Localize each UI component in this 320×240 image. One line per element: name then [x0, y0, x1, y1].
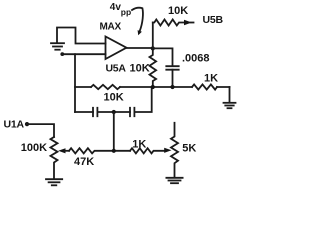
resistor 1K right [192, 84, 217, 89]
ground [51, 43, 64, 50]
wire: 1K to ground [229, 87, 231, 102]
node: bottom row junction [112, 149, 116, 153]
wire: output node up to top resistor [152, 23, 154, 49]
op-amp U5A [106, 37, 127, 60]
svg-text:4v: 4v [110, 2, 122, 13]
wire: output node to cap .0068 [153, 48, 173, 66]
node: resistor bottom junction [151, 85, 155, 89]
svg-text:10K: 10K [168, 5, 188, 17]
svg-text:.0068: .0068 [182, 53, 210, 65]
wiper arrow 5K [164, 148, 171, 153]
ground 5K [166, 178, 182, 183]
svg-text:1K: 1K [204, 73, 218, 85]
resistor 47K [69, 148, 130, 153]
wire: capacitor row [75, 87, 152, 112]
capacitor C1 [93, 108, 97, 116]
svg-text:U5B: U5B [203, 14, 224, 26]
resistor 1K bottom [130, 148, 165, 153]
svg-text:10K: 10K [130, 63, 150, 75]
ground right [224, 103, 236, 108]
svg-text:U5A: U5A [106, 63, 127, 75]
wire: U1A to 100K pot [27, 124, 54, 137]
node: cap bottom junction [170, 85, 174, 89]
wire: main feedback/output row [75, 86, 230, 88]
svg-text:10K: 10K [104, 92, 124, 104]
node: caps midpoint junction [112, 110, 116, 114]
svg-text:1K: 1K [132, 138, 146, 150]
svg-text:100K: 100K [21, 142, 47, 154]
node: U1A terminal dot [25, 122, 29, 126]
svg-text:MAX: MAX [100, 21, 122, 32]
svg-text:5K: 5K [182, 143, 196, 155]
svg-text:U1A: U1A [4, 118, 25, 130]
node: output junction dot [151, 46, 155, 50]
resistor 10K to U5B [153, 20, 185, 26]
wire: inverting input [62, 53, 105, 55]
capacitor C2 [130, 108, 134, 116]
svg-text:pp: pp [121, 7, 131, 17]
curved arrow pointing to output [132, 8, 143, 31]
resistor 10K vertical [150, 48, 157, 87]
capacitor .0068 [166, 66, 178, 70]
node: inverting input terminal dot [60, 52, 64, 56]
ground 100K [46, 179, 62, 185]
wire: op-amp output [127, 47, 153, 49]
resistor R feedback 10K [91, 85, 120, 89]
svg-text:47K: 47K [74, 156, 94, 168]
arrow to U5B [184, 20, 192, 25]
wire: inverting input down to feedback network [74, 54, 76, 112]
potentiometer 5K [171, 123, 178, 178]
potentiometer 100K [51, 137, 58, 179]
wire: ground loop to op-amp non-inverting input [57, 28, 106, 44]
wiper arrow 100K [58, 148, 65, 153]
wire: caps midpoint down to bottom row [113, 112, 115, 151]
